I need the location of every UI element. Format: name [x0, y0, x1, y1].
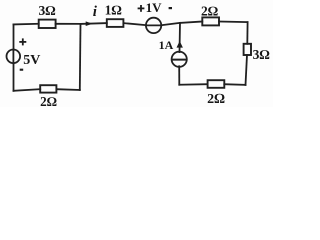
svg-text:2Ω: 2Ω	[207, 92, 225, 107]
wire: bottom-right rail (corner to 2-ohm)	[224, 83, 245, 86]
wire: through 5V source	[12, 50, 14, 64]
wire: through 1V source	[146, 24, 161, 26]
wire: 1A branch upper riser	[179, 23, 182, 52]
wire: left loop left side upper	[13, 24, 15, 50]
voltage source V2 1V	[146, 18, 161, 33]
wire: 1A branch node to 2-ohm (top-right)	[180, 22, 202, 23]
wire: 1A branch lower riser	[178, 66, 180, 84]
wire: right side lower (3-ohm to bottom-right corner)	[246, 55, 248, 85]
wire: left loop right side	[79, 24, 82, 90]
wire: 2-ohm to left loop right corner	[56, 88, 79, 91]
wire: top rail junction to 1-ohm	[81, 22, 107, 25]
current source I1 1A	[172, 52, 187, 67]
wire: 3-ohm to junction node	[56, 23, 81, 25]
wire: left loop left side lower	[13, 63, 15, 90]
svg-text:3Ω: 3Ω	[38, 3, 56, 18]
svg-text:1A: 1A	[159, 38, 174, 52]
resistor R 2ohm (bottom-left)	[40, 85, 56, 92]
wire: 2-ohm to 1A branch bottom corner	[179, 83, 207, 86]
svg-text:2Ω: 2Ω	[201, 3, 219, 18]
current source arrow 1A (pointing up)	[177, 41, 183, 48]
current arrow i (on top rail)	[86, 21, 93, 26]
wire: 1-ohm to 1V source	[123, 23, 146, 25]
wire: left loop bottom (corner to 2-ohm)	[14, 89, 41, 91]
wire: left loop top (corner to 3-ohm)	[14, 23, 39, 26]
resistor R 2ohm (bottom-right)	[208, 80, 225, 88]
svg-text:1Ω: 1Ω	[105, 3, 123, 18]
resistor R 3ohm (top-left)	[39, 20, 56, 28]
label minus of 5V	[20, 69, 24, 71]
voltage source V1 5V	[7, 50, 21, 64]
svg-text:1V: 1V	[146, 0, 163, 15]
svg-text:3Ω: 3Ω	[253, 47, 271, 62]
label plus of 1V	[138, 5, 145, 12]
svg-text:2Ω: 2Ω	[40, 94, 57, 107]
label plus of 5V	[19, 38, 26, 45]
label minus of 1V	[169, 7, 172, 9]
current source bar	[172, 59, 186, 61]
resistor R 3ohm (right, vertical)	[244, 44, 251, 55]
resistor R 1ohm (top)	[107, 19, 124, 27]
resistor R 2ohm (top-right)	[202, 17, 219, 25]
wire: 2-ohm to top-right corner	[219, 21, 248, 24]
wire: right side upper (corner to 3-ohm)	[246, 22, 248, 44]
wire: 1V source to 1A branch node	[161, 23, 180, 25]
svg-text:5V: 5V	[23, 53, 40, 68]
